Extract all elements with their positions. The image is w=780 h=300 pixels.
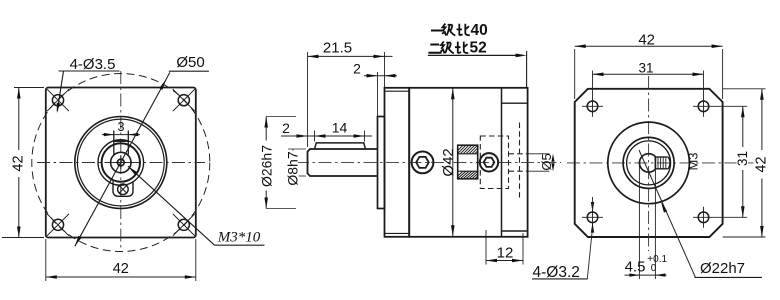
svg-text:0: 0 [651,263,657,274]
svg-text:31: 31 [638,60,653,75]
svg-text:2: 2 [353,60,361,76]
svg-text:M3: M3 [686,152,701,170]
svg-text:42: 42 [754,156,770,172]
svg-text:Ø8h7: Ø8h7 [285,151,301,185]
svg-text:Ø5: Ø5 [539,153,554,170]
svg-text:Ø26h7: Ø26h7 [259,145,275,187]
svg-text:Ø22h7: Ø22h7 [700,260,745,277]
svg-text:Ø50: Ø50 [176,54,204,71]
svg-text:52: 52 [470,40,487,57]
svg-text:M3*10: M3*10 [217,230,261,246]
svg-text:31: 31 [735,151,750,166]
svg-text:4.5: 4.5 [625,259,646,276]
svg-text:21.5: 21.5 [323,39,352,56]
svg-text:40: 40 [471,22,488,39]
svg-text:3: 3 [118,120,125,134]
svg-text:12: 12 [497,245,514,262]
svg-text:14: 14 [332,119,348,135]
svg-text:42: 42 [638,31,655,48]
svg-text:2: 2 [282,120,290,136]
svg-text:Ø42: Ø42 [440,148,457,176]
svg-text:42: 42 [10,155,26,171]
svg-text:42: 42 [113,261,129,277]
